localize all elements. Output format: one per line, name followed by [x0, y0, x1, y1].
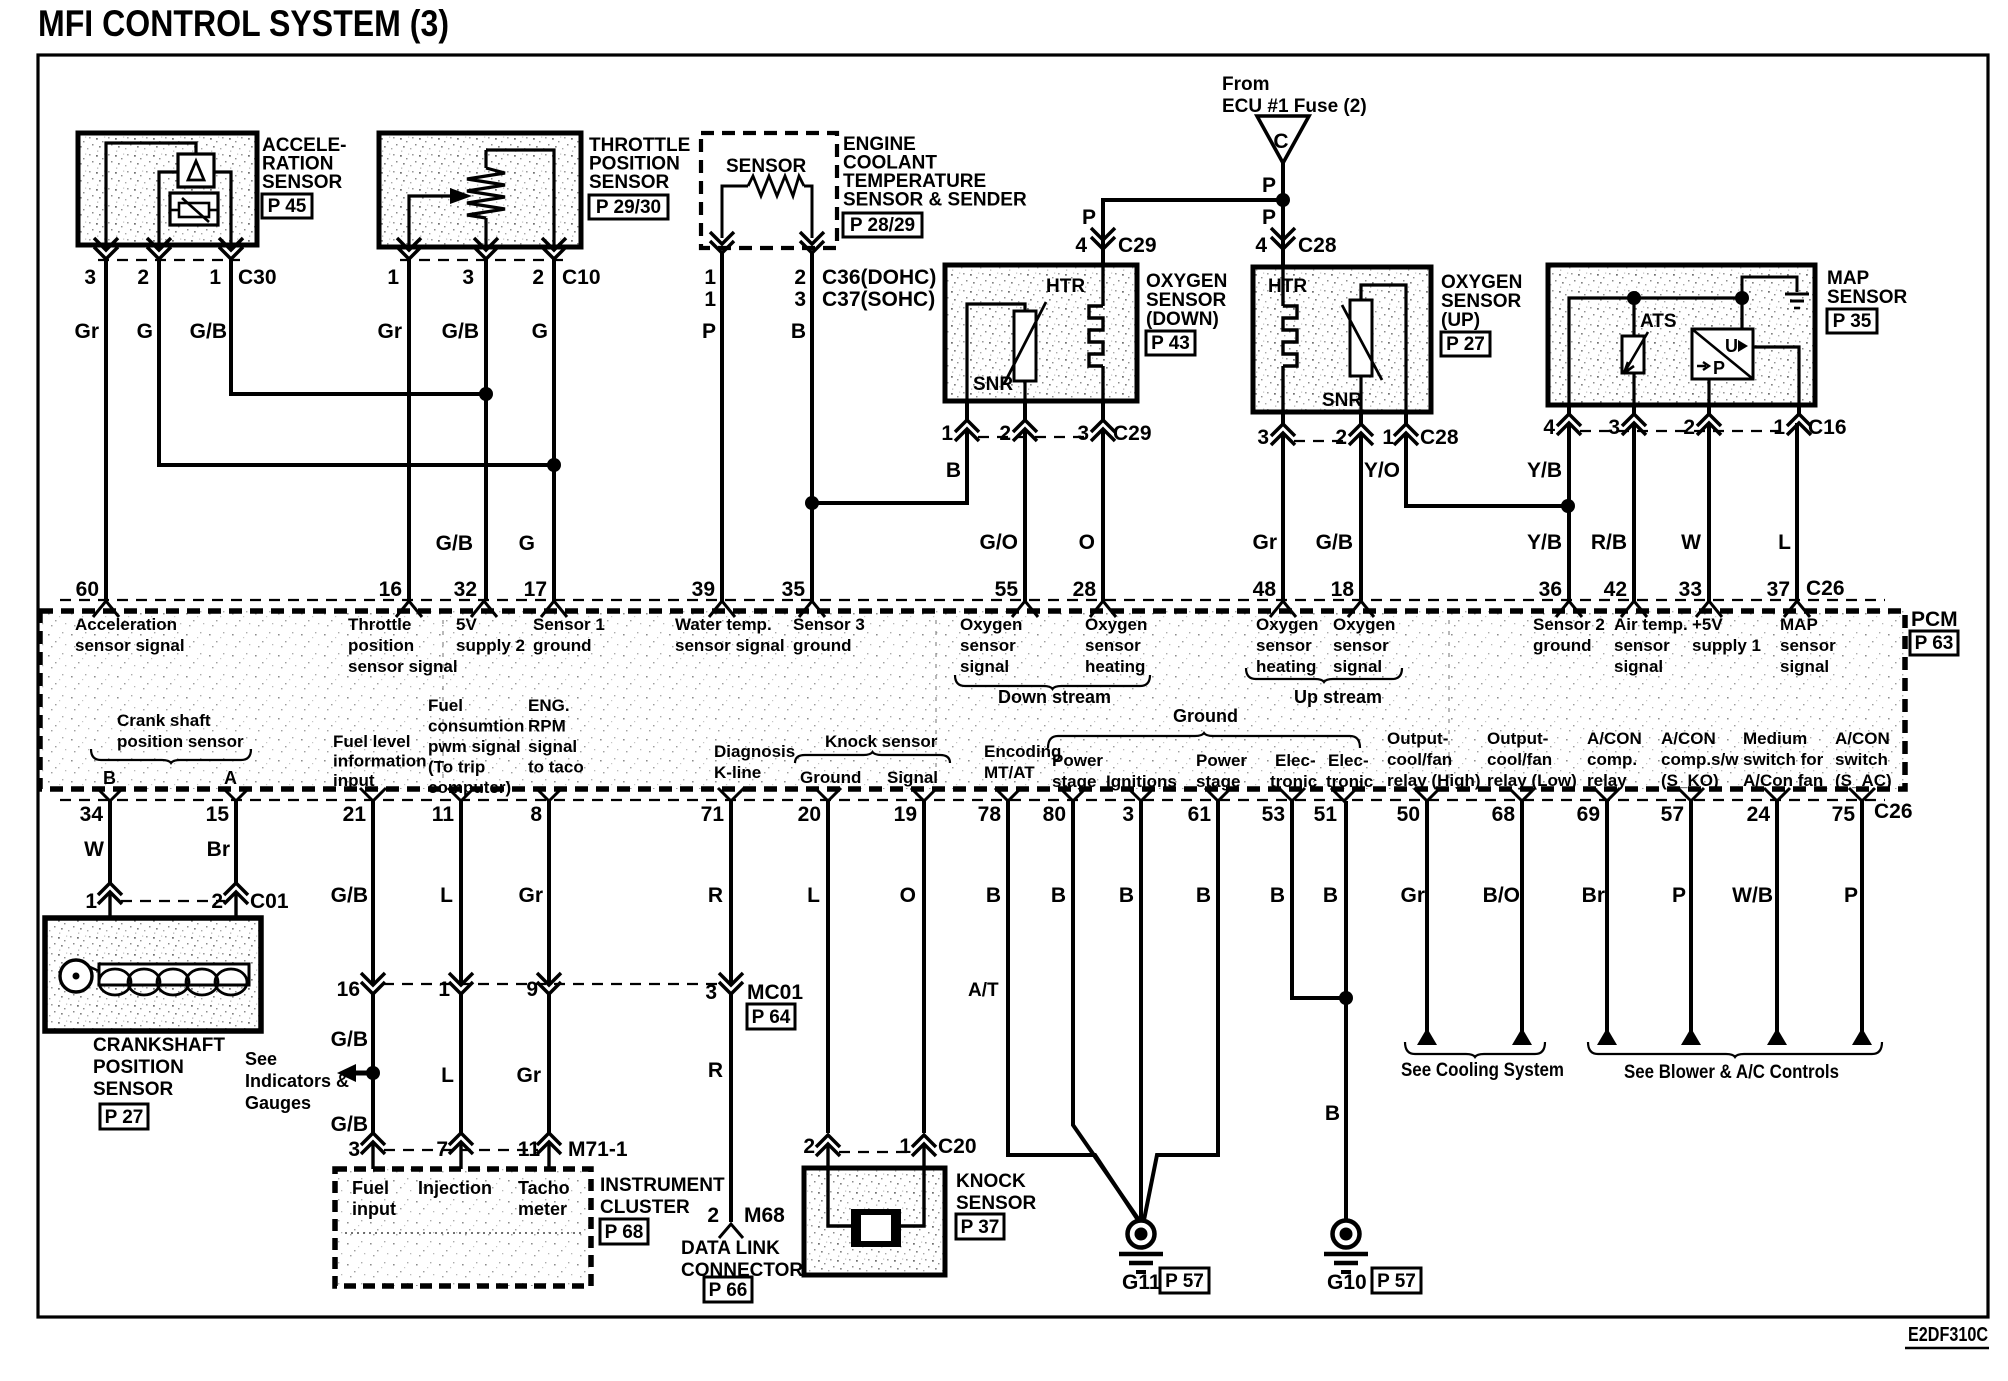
svg-text:Br: Br: [1582, 884, 1605, 907]
svg-text:51: 51: [1314, 803, 1338, 826]
brace down stream: [955, 675, 1150, 707]
svg-text:SENSOR: SENSOR: [1827, 287, 1908, 308]
svg-text:69: 69: [1577, 803, 1600, 826]
wire O2 up pin3 Gr to PCM 48: [1281, 433, 1285, 601]
svg-text:P: P: [1672, 884, 1686, 907]
brace ground: [1048, 706, 1360, 748]
wire PCM 21 G/B: [371, 801, 375, 985]
svg-text:Br: Br: [207, 838, 230, 861]
svg-text:C37(SOHC): C37(SOHC): [822, 288, 935, 311]
svg-text:heating: heating: [1256, 657, 1316, 676]
svg-text:C16: C16: [1808, 416, 1847, 439]
svg-text:Output-: Output-: [1487, 729, 1548, 748]
svg-text:K-line: K-line: [714, 763, 761, 782]
svg-text:M68: M68: [744, 1204, 785, 1227]
svg-text:A/CON: A/CON: [1835, 729, 1890, 748]
svg-text:80: 80: [1043, 803, 1066, 826]
svg-text:P 57: P 57: [1377, 1271, 1416, 1292]
svg-text:Ground: Ground: [1173, 706, 1238, 726]
wire accel pin1 G/B link: [231, 259, 486, 394]
terminal triangle B/O: [1512, 1028, 1532, 1045]
svg-text:P 68: P 68: [605, 1222, 644, 1243]
svg-text:input: input: [352, 1199, 396, 1219]
connector MC01: [337, 973, 804, 1029]
svg-text:L: L: [1778, 531, 1791, 554]
instrument cluster box: [335, 1169, 591, 1286]
svg-text:4: 4: [1255, 234, 1267, 257]
wire PCM 80 B to G11: [1073, 801, 1139, 1220]
svg-text:Elec-: Elec-: [1275, 751, 1316, 770]
svg-text:(DOWN): (DOWN): [1146, 309, 1219, 330]
wire R MC01 to M68: [729, 994, 733, 1222]
svg-text:1: 1: [899, 1135, 911, 1158]
svg-text:O: O: [900, 884, 916, 907]
wire PCM 75 P to blower: [1860, 801, 1864, 1040]
svg-text:G10: G10: [1327, 1271, 1367, 1294]
svg-text:C01: C01: [250, 890, 289, 913]
svg-text:+5V: +5V: [1692, 615, 1723, 634]
svg-text:Up stream: Up stream: [1294, 687, 1382, 707]
wire O2 up pin1 Y/O link: [1406, 433, 1568, 506]
svg-text:(S_AC): (S_AC): [1835, 771, 1892, 790]
svg-text:G/B: G/B: [1316, 531, 1353, 554]
svg-text:Y/B: Y/B: [1527, 531, 1562, 554]
svg-text:P 66: P 66: [709, 1280, 748, 1301]
svg-text:sensor: sensor: [1614, 636, 1670, 655]
svg-text:3: 3: [348, 1138, 360, 1161]
junction Y/B: [1561, 499, 1575, 513]
connector C10: [387, 238, 600, 289]
svg-text:sensor: sensor: [1256, 636, 1312, 655]
svg-text:sensor signal: sensor signal: [675, 636, 785, 655]
svg-text:B/O: B/O: [1483, 884, 1520, 907]
svg-text:B: B: [1196, 884, 1211, 907]
svg-text:7: 7: [436, 1138, 448, 1161]
svg-text:position sensor: position sensor: [117, 732, 244, 751]
svg-text:See Blower & A/C Controls: See Blower & A/C Controls: [1624, 1062, 1839, 1083]
wire colour labels top: [74, 320, 1791, 555]
svg-text:P 37: P 37: [961, 1217, 1000, 1238]
wire B branch to O2 down pin1: [812, 429, 967, 503]
svg-text:G/B: G/B: [331, 884, 368, 907]
svg-text:P 63: P 63: [1915, 633, 1954, 654]
svg-text:55: 55: [995, 578, 1019, 601]
svg-text:5V: 5V: [456, 615, 477, 634]
svg-text:16: 16: [337, 978, 360, 1001]
wire PCM 61 B to G11: [1144, 801, 1218, 1220]
svg-text:A/CON: A/CON: [1587, 729, 1642, 748]
svg-text:SENSOR: SENSOR: [1441, 291, 1522, 312]
svg-text:2: 2: [794, 266, 806, 289]
svg-text:Crank shaft: Crank shaft: [117, 711, 211, 730]
svg-text:11: 11: [518, 1138, 541, 1161]
svg-text:to taco: to taco: [528, 758, 584, 777]
svg-text:U: U: [1725, 336, 1738, 356]
svg-text:G/B: G/B: [436, 532, 473, 555]
svg-text:39: 39: [692, 578, 715, 601]
wire MAP pin3 R/B to PCM 42: [1632, 423, 1636, 601]
wire PCM 51 B to G10: [1344, 801, 1348, 1220]
svg-text:G: G: [532, 320, 548, 343]
svg-text:20: 20: [798, 803, 821, 826]
junction G: [547, 458, 561, 472]
svg-text:Y/O: Y/O: [1364, 459, 1400, 482]
svg-text:MAP: MAP: [1780, 615, 1818, 634]
svg-text:W/B: W/B: [1732, 884, 1773, 907]
svg-text:meter: meter: [518, 1199, 567, 1219]
svg-text:G: G: [137, 320, 153, 343]
svg-text:75: 75: [1832, 803, 1856, 826]
wire PCM 8 Gr: [547, 801, 551, 985]
svg-text:C29: C29: [1118, 234, 1157, 257]
svg-text:B: B: [1270, 884, 1285, 907]
svg-text:B: B: [1119, 884, 1134, 907]
oxygen sensor (down) box: [945, 265, 1137, 401]
svg-text:Encoding: Encoding: [984, 742, 1061, 761]
svg-text:Oxygen: Oxygen: [1333, 615, 1395, 634]
svg-text:W: W: [1681, 531, 1701, 554]
svg-text:CRANKSHAFT: CRANKSHAFT: [93, 1035, 225, 1056]
connector C29 pin 4: [1075, 228, 1156, 257]
connector C28: [1257, 412, 1459, 449]
svg-text:From: From: [1222, 74, 1270, 95]
svg-text:3: 3: [1077, 422, 1089, 445]
svg-text:supply 1: supply 1: [1692, 636, 1761, 655]
svg-text:signal: signal: [1780, 657, 1829, 676]
wire PCM 19 O to knock: [922, 801, 926, 1133]
oxygen sensor (up) box: [1253, 267, 1431, 412]
svg-text:Oxygen: Oxygen: [1085, 615, 1147, 634]
svg-text:consumtion: consumtion: [428, 717, 524, 736]
svg-text:SENSOR: SENSOR: [589, 172, 670, 193]
svg-text:Power: Power: [1196, 751, 1247, 770]
svg-text:POSITION: POSITION: [93, 1057, 184, 1078]
svg-text:supply 2: supply 2: [456, 636, 525, 655]
ECU #1 fuse feed label: [1222, 74, 1367, 117]
svg-text:Tacho: Tacho: [518, 1178, 570, 1198]
svg-text:P 27: P 27: [105, 1107, 144, 1128]
svg-text:Gauges: Gauges: [245, 1093, 311, 1113]
svg-text:Gr: Gr: [516, 1064, 541, 1087]
svg-text:CLUSTER: CLUSTER: [600, 1197, 690, 1218]
terminal triangle P2: [1852, 1028, 1872, 1045]
svg-text:Down stream: Down stream: [998, 687, 1111, 707]
svg-text:32: 32: [454, 578, 477, 601]
PCM box: [40, 611, 1905, 789]
wire MAP pin1 L to PCM 37: [1795, 423, 1799, 601]
svg-text:24: 24: [1747, 803, 1771, 826]
svg-text:1: 1: [387, 266, 399, 289]
svg-text:B: B: [1051, 884, 1066, 907]
svg-text:input: input: [333, 771, 375, 790]
svg-text:MT/AT: MT/AT: [984, 763, 1035, 782]
wire PCM 53 B: [1292, 801, 1346, 998]
PCM pin function labels top: [75, 615, 1836, 676]
PCM top pins: [76, 577, 1845, 617]
engine coolant temperature sensor box: [701, 133, 837, 248]
MAP sensor label: [1827, 268, 1908, 333]
engine coolant temperature label: [843, 134, 1027, 237]
junction G/B: [479, 387, 493, 401]
svg-text:P 64: P 64: [752, 1007, 791, 1028]
svg-text:G/B: G/B: [442, 320, 479, 343]
svg-text:2: 2: [707, 1204, 719, 1227]
svg-text:C: C: [1273, 130, 1288, 153]
svg-text:tronic: tronic: [1326, 772, 1373, 791]
svg-text:sensor: sensor: [1333, 636, 1389, 655]
svg-text:switch for: switch for: [1743, 750, 1824, 769]
svg-text:4: 4: [1075, 234, 1087, 257]
svg-text:18: 18: [1331, 578, 1355, 601]
brace see cooling system: [1401, 1042, 1564, 1081]
svg-text:computer): computer): [428, 778, 511, 797]
svg-text:1: 1: [438, 978, 450, 1001]
wire PCM 3 B to G11: [1139, 801, 1143, 1220]
svg-text:G11: G11: [1122, 1271, 1161, 1294]
wire ECT pin1 P to PCM 39: [720, 253, 724, 601]
svg-text:Sensor 2: Sensor 2: [1533, 615, 1605, 634]
svg-text:Gr: Gr: [518, 884, 543, 907]
svg-text:sensor: sensor: [1780, 636, 1836, 655]
svg-text:Medium: Medium: [1743, 729, 1807, 748]
svg-text:3: 3: [705, 981, 717, 1004]
brace see blower and AC: [1588, 1042, 1882, 1083]
wire MAP pin4 Y/B to PCM 36: [1567, 423, 1571, 601]
svg-text:G: G: [519, 532, 535, 555]
ground G11: [1119, 1221, 1209, 1295]
svg-text:Gr: Gr: [1400, 884, 1425, 907]
terminal triangle P: [1681, 1028, 1701, 1045]
svg-text:Diagnosis: Diagnosis: [714, 742, 795, 761]
svg-text:11: 11: [432, 803, 455, 826]
svg-text:G/B: G/B: [190, 320, 227, 343]
svg-text:B: B: [946, 459, 961, 482]
svg-text:Fuel: Fuel: [428, 696, 463, 715]
PCM pin function labels bottom: [91, 696, 1892, 797]
svg-text:Oxygen: Oxygen: [1256, 615, 1318, 634]
svg-text:RPM: RPM: [528, 717, 566, 736]
svg-text:G/B: G/B: [331, 1028, 368, 1051]
junction B: [1339, 991, 1353, 1005]
svg-text:switch: switch: [1835, 750, 1888, 769]
svg-text:relay (Low): relay (Low): [1487, 771, 1577, 790]
brace up stream: [1246, 668, 1402, 707]
wire PCM 20 L to knock: [826, 801, 830, 1133]
svg-text:3: 3: [1122, 803, 1134, 826]
svg-text:1: 1: [1382, 426, 1394, 449]
ground G10: [1324, 1221, 1421, 1295]
svg-text:P: P: [1262, 174, 1276, 197]
connector M71-1: [348, 1133, 628, 1161]
svg-text:Ground: Ground: [800, 768, 861, 787]
svg-text:48: 48: [1253, 578, 1277, 601]
wire ECT pin2 B to PCM 35: [810, 253, 814, 601]
svg-text:ENG.: ENG.: [528, 696, 570, 715]
svg-text:8: 8: [530, 803, 542, 826]
svg-text:Output-: Output-: [1387, 729, 1448, 748]
svg-text:17: 17: [524, 578, 547, 601]
svg-text:sensor signal: sensor signal: [348, 657, 458, 676]
wire accel pin3 Gr to PCM 60: [104, 259, 108, 601]
svg-text:A/Con fan: A/Con fan: [1743, 771, 1823, 790]
wire MAP pin2 W to PCM 33: [1707, 423, 1711, 601]
svg-text:relay: relay: [1587, 771, 1627, 790]
svg-text:OXYGEN: OXYGEN: [1146, 271, 1227, 292]
svg-text:C30: C30: [238, 266, 277, 289]
svg-text:MC01: MC01: [747, 981, 803, 1004]
svg-text:P 57: P 57: [1165, 1271, 1204, 1292]
svg-text:Elec-: Elec-: [1328, 751, 1369, 770]
svg-text:KNOCK: KNOCK: [956, 1171, 1026, 1192]
svg-text:B: B: [1323, 884, 1338, 907]
svg-text:PCM: PCM: [1911, 608, 1958, 631]
svg-text:1: 1: [704, 266, 716, 289]
wire PCM 24 W/B to blower: [1775, 801, 1779, 1040]
svg-text:P 27: P 27: [1446, 334, 1485, 355]
svg-text:B: B: [986, 884, 1001, 907]
svg-text:R/B: R/B: [1591, 531, 1627, 554]
svg-text:42: 42: [1604, 578, 1627, 601]
connector C29: [941, 401, 1151, 445]
fuse symbol C: [1257, 116, 1309, 163]
svg-text:SENSOR: SENSOR: [1146, 290, 1227, 311]
svg-text:cool/fan: cool/fan: [1487, 750, 1552, 769]
svg-text:B: B: [103, 768, 116, 788]
svg-text:37: 37: [1767, 578, 1790, 601]
svg-text:SENSOR: SENSOR: [262, 172, 343, 193]
svg-text:36: 36: [1539, 578, 1562, 601]
svg-text:relay (High): relay (High): [1387, 771, 1481, 790]
svg-text:1: 1: [209, 266, 221, 289]
junction G/B to gauges: [366, 1066, 380, 1080]
svg-text:P 43: P 43: [1151, 333, 1190, 354]
svg-text:C28: C28: [1298, 234, 1337, 257]
svg-text:E2DF310C: E2DF310C: [1908, 1324, 1988, 1346]
crankshaft position sensor box: [45, 918, 261, 1031]
svg-text:DATA LINK: DATA LINK: [681, 1238, 780, 1259]
svg-text:Fuel level: Fuel level: [333, 732, 410, 751]
svg-text:SENSOR: SENSOR: [956, 1193, 1037, 1214]
svg-text:34: 34: [80, 803, 104, 826]
svg-text:SNR: SNR: [1322, 390, 1362, 411]
svg-text:L: L: [807, 884, 820, 907]
svg-text:C28: C28: [1420, 426, 1459, 449]
connector C16: [1543, 405, 1846, 439]
wire O2 down pin2 G/O to PCM 55: [1023, 429, 1027, 601]
svg-text:Y/B: Y/B: [1527, 459, 1562, 482]
svg-text:15: 15: [206, 803, 230, 826]
svg-text:1: 1: [85, 890, 97, 913]
svg-text:53: 53: [1262, 803, 1285, 826]
svg-text:See: See: [245, 1049, 277, 1069]
PCM top connector line: [60, 599, 1885, 601]
svg-text:M71-1: M71-1: [568, 1138, 628, 1161]
PCM column divider: [1448, 620, 1450, 782]
svg-text:C36(DOHC): C36(DOHC): [822, 266, 936, 289]
acceleration sensor box: [78, 133, 257, 245]
oxygen sensor (down) label: [1146, 271, 1227, 355]
svg-text:2: 2: [137, 266, 149, 289]
svg-text:(S_KO): (S_KO): [1661, 771, 1719, 790]
svg-text:ground: ground: [1533, 636, 1592, 655]
junction B: [805, 496, 819, 510]
wire PCM 69 Br to blower: [1605, 801, 1609, 1040]
svg-text:28: 28: [1073, 578, 1097, 601]
wire PCM 68 B/O to cooling: [1520, 801, 1524, 1040]
svg-text:4: 4: [1543, 416, 1555, 439]
svg-text:SENSOR & SENDER: SENSOR & SENDER: [843, 190, 1027, 211]
terminal triangle Br: [1597, 1028, 1617, 1045]
svg-text:Water temp.: Water temp.: [675, 615, 772, 634]
svg-text:W: W: [84, 838, 104, 861]
wire throttle pin2 G to PCM 17: [552, 259, 556, 601]
svg-text:MFI CONTROL SYSTEM (3): MFI CONTROL SYSTEM (3): [38, 3, 449, 44]
connector C28 pin 4: [1255, 228, 1337, 257]
svg-text:Sensor 1: Sensor 1: [533, 615, 605, 634]
svg-text:P 35: P 35: [1833, 311, 1872, 332]
svg-text:OXYGEN: OXYGEN: [1441, 272, 1522, 293]
svg-text:Knock sensor: Knock sensor: [825, 732, 938, 751]
knock sensor box: [804, 1144, 945, 1275]
wire G/B MC01 to M71-1: [371, 994, 375, 1133]
svg-text:stage: stage: [1052, 772, 1096, 791]
wire PCM 50 Gr to cooling: [1425, 801, 1429, 1040]
wire colour labels mid-bottom: [331, 1028, 723, 1136]
svg-text:35: 35: [782, 578, 806, 601]
svg-text:C29: C29: [1113, 422, 1152, 445]
wire from fuse to C28/C29: [1281, 163, 1285, 267]
svg-text:Gr: Gr: [377, 320, 402, 343]
svg-text:P: P: [1262, 206, 1276, 229]
svg-text:SENSOR: SENSOR: [726, 156, 807, 177]
terminal triangle Gr: [1417, 1028, 1437, 1045]
svg-text:sensor: sensor: [1085, 636, 1141, 655]
svg-text:See Cooling System: See Cooling System: [1401, 1060, 1564, 1081]
svg-text:R: R: [708, 1059, 723, 1082]
svg-text:information: information: [333, 752, 427, 771]
see indicators and gauges note: [245, 1049, 373, 1113]
instrument cluster label: [600, 1175, 725, 1244]
junction P node: [1276, 193, 1290, 207]
svg-text:(UP): (UP): [1441, 310, 1480, 331]
svg-text:signal: signal: [1333, 657, 1382, 676]
wire PCM 57 P to blower: [1689, 801, 1693, 1040]
svg-text:G/B: G/B: [331, 1113, 368, 1136]
svg-text:comp.s/w: comp.s/w: [1661, 750, 1739, 769]
svg-text:ECU #1 Fuse (2): ECU #1 Fuse (2): [1222, 96, 1367, 117]
svg-text:Injection: Injection: [418, 1178, 492, 1198]
terminal triangle W/B: [1767, 1028, 1787, 1045]
wire colour labels bottom: [84, 838, 1858, 907]
connector C30: [84, 238, 276, 289]
svg-text:L: L: [441, 1064, 454, 1087]
svg-text:57: 57: [1661, 803, 1684, 826]
svg-text:Indicators &: Indicators &: [245, 1071, 349, 1091]
oxygen sensor (up) label: [1441, 272, 1522, 356]
PCM bottom connector line: [60, 799, 1885, 801]
svg-text:1: 1: [704, 288, 716, 311]
svg-text:78: 78: [978, 803, 1002, 826]
throttle position sensor label: [589, 135, 690, 219]
svg-text:R: R: [708, 884, 723, 907]
connector C20: [803, 1135, 976, 1158]
svg-text:C26: C26: [1874, 800, 1913, 823]
svg-text:C26: C26: [1806, 577, 1845, 600]
wire O2 up pin2 G/B to PCM 18: [1359, 433, 1363, 601]
svg-text:60: 60: [76, 578, 99, 601]
wire into crank box: [108, 892, 111, 964]
svg-text:68: 68: [1492, 803, 1516, 826]
